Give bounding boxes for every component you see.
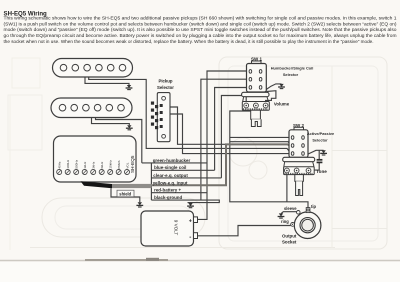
watermark ghost shapes [8,57,387,250]
wire black-ground to V1 and right ground [151,200,219,203]
wire black-ground right branch stub [190,202,192,205]
tone pot [283,157,315,174]
wire V6 volume wiper down to jack tip [230,108,308,208]
svg-text:40Hz: 40Hz [58,161,62,169]
wire branch V6 to SW2 row2 feed F2 [230,142,290,144]
tone pot hatch row [285,173,312,175]
svg-text:1kHz: 1kHz [83,161,87,168]
scan bottom edge line [0,260,400,262]
svg-text:(SW1) is a push pull switch on: (SW1) is a push pull switch on the volum… [4,21,398,26]
ground neck pickup [126,85,133,90]
svg-text:Selector: Selector [312,138,328,143]
svg-text:-: - [189,234,191,241]
ground SW1 [278,84,285,89]
wire cap top lead [318,150,320,159]
ground jack sleeve [278,213,285,218]
wire SW1 hook to volume lug3 [266,91,276,103]
svg-text:SW 1: SW 1 [251,57,262,62]
ground shield/battery-left [136,202,143,207]
volume pot shaft [251,110,261,126]
svg-text:SW 2: SW 2 [293,123,304,128]
wire selector lug to SW2 row3 feed F3 [164,107,226,144]
volume pot hatch row [244,108,267,110]
wire neck pickup hot down to green row [89,77,290,152]
SW2 switch [289,127,308,157]
svg-text:Selector: Selector [283,72,299,77]
svg-text:ring: ring [281,219,289,224]
svg-text:3kHz: 3kHz [92,161,96,168]
svg-text:Active/Passive: Active/Passive [307,131,335,136]
wire jack sleeve to ground [281,212,297,214]
ground SW2 [320,150,327,155]
shield label [117,190,134,197]
wire V1 black up to SW1 row2 [201,79,249,200]
tone pot shaft [295,175,304,196]
legend labels [153,158,191,200]
paragraph [4,16,398,44]
wire neck pickup ground lead [85,77,129,85]
neck single coil pickup [53,59,133,78]
wire legend spine [150,163,152,200]
svg-text:Socket: Socket [282,239,297,244]
humbucker trimmer labels [58,159,130,168]
wire legend clear [151,177,221,179]
wire cap bottom lead to tone lug3 [308,163,319,170]
svg-text:green-humbucker: green-humbucker [153,158,191,163]
battery [141,211,198,246]
svg-text:Selector: Selector [157,85,174,90]
svg-text:Volume: Volume [274,102,290,107]
wire SW2 wiper stub [297,156,299,162]
middle single coil pickup [51,98,132,118]
ground middle pickup [126,125,133,130]
svg-text:100Hz: 100Hz [66,159,70,168]
wire middle pickup hot down to green row [96,118,142,163]
wire tone lug1 down to tip run [286,173,288,202]
svg-text:500Hz: 500Hz [75,159,79,168]
svg-text:+: + [189,218,192,224]
wire selector lug to SW2 bottom feed F4 [164,114,290,154]
svg-text:Humbucker/Single Coil: Humbucker/Single Coil [271,65,314,70]
svg-text:Pickup: Pickup [158,79,172,84]
svg-text:the socket when not in use. Wh: the socket when not in use. When the sou… [4,39,374,44]
wire battery minus to jack ring [198,226,291,236]
svg-text:go through the EQ/preamp circu: go through the EQ/preamp circuit and bec… [4,33,397,38]
wire shield to ground [111,188,140,202]
wire middle pickup ground lead [92,118,130,126]
volume pot [242,92,270,110]
wire yellow thick to SW2 row2 [151,144,289,185]
svg-text:yellow-e.q. input: yellow-e.q. input [153,180,188,185]
svg-text:SH-EQ5: SH-EQ5 [130,155,135,173]
humbucker EQ trimmers [57,170,130,175]
svg-text:clear-e.q. output: clear-e.q. output [153,173,188,178]
svg-text:VOL: VOL [125,162,129,168]
svg-text:Output: Output [282,234,297,239]
svg-text:blue-single coil: blue-single coil [154,165,186,170]
ground battery-right [187,203,194,208]
selector lugs [151,102,163,130]
wire V2 green up to SW1 row1, red down to battery plus [198,71,250,219]
wire V4 clear up to volume pot lug1 [221,96,246,178]
svg-text:shield: shield [119,191,131,196]
output jack [291,208,321,239]
wire V3 blue up to SW1 row3 [215,88,249,171]
svg-text:PRES: PRES [117,160,121,168]
tone capacitor [317,160,323,163]
wire SW1 to ground arm [266,84,281,90]
humbucker cable shield gray [112,184,152,188]
wire branch V6 to SW2 row1 feed F1 [230,136,289,138]
wire legend blue [151,169,214,171]
svg-text:9 VOLT: 9 VOLT [174,220,179,236]
svg-text:This wiring schematic shows ho: This wiring schematic shows how to wire … [4,16,398,21]
wire SW2 to ground arm [308,150,324,154]
svg-text:Tone: Tone [316,169,327,174]
humbucker SH-EQ5 [54,136,137,182]
wire legend red [151,192,207,194]
svg-text:sleeve: sleeve [284,206,297,211]
svg-text:red-battery +: red-battery + [154,188,181,193]
wire legend green [142,162,207,164]
humbucker cable black [81,181,113,188]
pickup selector [157,93,170,142]
SW1 switch [247,61,267,92]
svg-text:black-ground: black-ground [154,195,182,200]
svg-text:tip: tip [311,204,317,209]
svg-text:10kHz: 10kHz [109,160,113,169]
svg-text:6kHz: 6kHz [100,161,104,168]
svg-text:mode (switch down) and “passiv: mode (switch down) and “passive” (EQ off… [4,27,398,32]
